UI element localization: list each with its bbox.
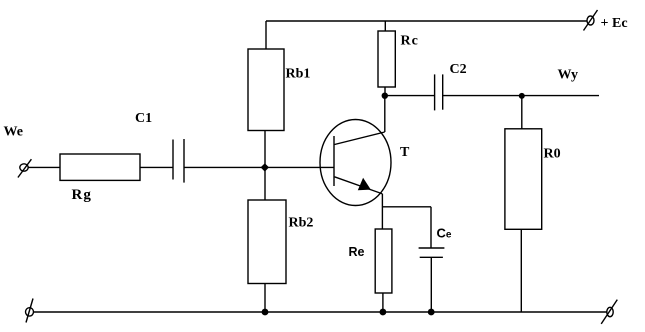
svg-text:R0: R0	[544, 147, 561, 162]
svg-text:We: We	[4, 125, 23, 140]
svg-text:Rc: Rc	[401, 34, 419, 49]
svg-text:Rb2: Rb2	[289, 216, 314, 231]
svg-text:C2: C2	[450, 62, 467, 77]
svg-text:Rg: Rg	[72, 187, 92, 203]
svg-text:T: T	[400, 145, 410, 160]
svg-text:+ Ec: + Ec	[601, 16, 628, 31]
svg-text:Re: Re	[349, 245, 365, 259]
svg-text:Rb1: Rb1	[286, 67, 311, 82]
svg-text:Wy: Wy	[558, 68, 578, 83]
svg-text:C1: C1	[135, 111, 152, 126]
